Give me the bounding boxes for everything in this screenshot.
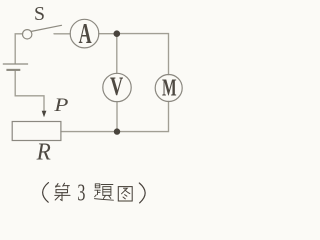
svg-text:M: M xyxy=(162,75,177,102)
svg-text:A: A xyxy=(79,19,92,50)
svg-text:V: V xyxy=(110,72,123,101)
svg-text:R: R xyxy=(36,140,51,166)
svg-text:S: S xyxy=(34,3,45,25)
svg-text:P: P xyxy=(53,95,68,116)
svg-text:3: 3 xyxy=(77,181,85,205)
